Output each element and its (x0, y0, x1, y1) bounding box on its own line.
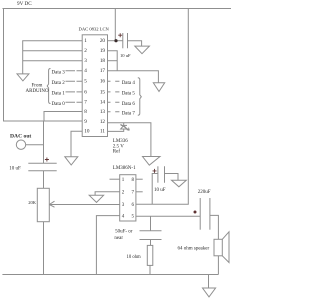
svg-text:20K: 20K (28, 200, 37, 205)
svg-text:6: 6 (132, 203, 135, 208)
svg-text:17: 17 (100, 68, 106, 74)
svg-text:2: 2 (84, 48, 87, 54)
svg-text:ARDUINO: ARDUINO (26, 89, 49, 94)
svg-text:12: 12 (100, 119, 106, 125)
svg-text:Ref: Ref (113, 149, 121, 154)
svg-text:11: 11 (100, 129, 105, 135)
svg-text:near: near (114, 236, 123, 241)
svg-text:Data 6: Data 6 (122, 102, 136, 107)
svg-text:DAC 0832 LCN: DAC 0832 LCN (79, 27, 110, 32)
svg-text:220uF: 220uF (198, 190, 211, 195)
svg-text:20: 20 (100, 38, 106, 44)
svg-text:Data 2: Data 2 (52, 81, 66, 86)
svg-text:DAC out: DAC out (10, 133, 31, 139)
svg-text:8: 8 (84, 109, 87, 115)
svg-text:Data 1: Data 1 (52, 91, 66, 96)
svg-text:Data 7: Data 7 (122, 111, 136, 116)
svg-text:50uF- or: 50uF- or (115, 230, 133, 235)
svg-text:5: 5 (132, 214, 135, 219)
svg-text:10 ohm: 10 ohm (127, 255, 142, 260)
svg-text:19: 19 (100, 48, 106, 54)
svg-text:8: 8 (132, 178, 135, 183)
svg-text:5: 5 (84, 79, 87, 85)
svg-text:4: 4 (122, 214, 125, 219)
svg-text:7: 7 (84, 100, 87, 106)
svg-text:14: 14 (100, 100, 106, 106)
svg-text:1: 1 (122, 178, 125, 183)
svg-text:Data 0: Data 0 (52, 102, 66, 107)
svg-text:3: 3 (122, 203, 125, 208)
svg-text:Data 5: Data 5 (122, 91, 136, 96)
svg-text:From: From (32, 83, 43, 88)
svg-text:9: 9 (84, 119, 87, 125)
svg-text:7: 7 (132, 191, 135, 196)
svg-text:9V DC: 9V DC (17, 1, 32, 7)
svg-text:16: 16 (100, 79, 106, 85)
svg-text:64 ohm speaker: 64 ohm speaker (178, 247, 210, 252)
svg-text:1: 1 (84, 38, 87, 44)
svg-text:10 uF: 10 uF (120, 53, 131, 58)
svg-text:10 uF: 10 uF (154, 188, 166, 193)
svg-text:10 uF: 10 uF (9, 166, 21, 171)
svg-text:LM386N-1: LM386N-1 (113, 166, 136, 171)
svg-text:Data 4: Data 4 (122, 81, 136, 86)
svg-text:4: 4 (84, 68, 87, 74)
svg-text:2: 2 (122, 191, 125, 196)
svg-text:13: 13 (100, 109, 106, 115)
svg-text:18: 18 (100, 58, 106, 64)
svg-text:3: 3 (84, 58, 87, 64)
svg-text:15: 15 (100, 89, 106, 95)
svg-text:10: 10 (84, 129, 90, 135)
svg-text:6: 6 (84, 89, 87, 95)
svg-text:Data 3: Data 3 (52, 70, 66, 75)
